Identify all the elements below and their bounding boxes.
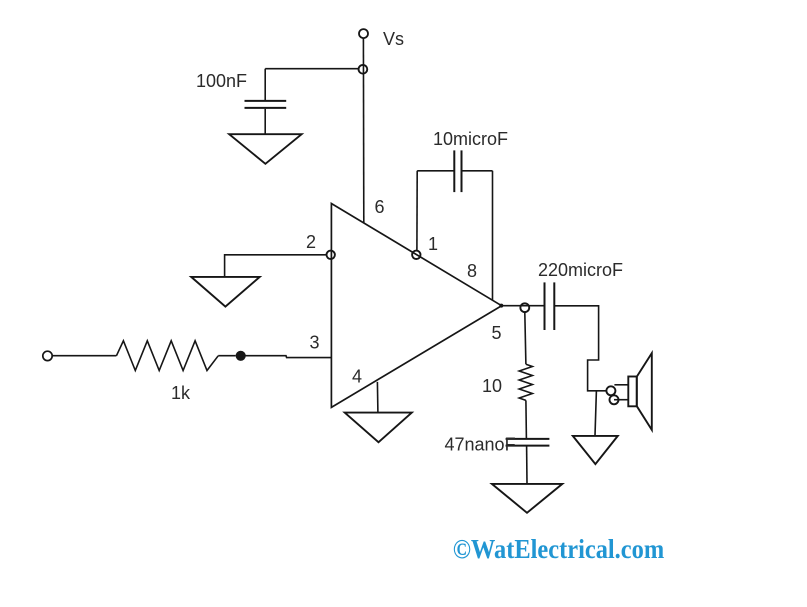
svg-text:Vs: Vs xyxy=(383,29,404,49)
wire pin 4 down xyxy=(376,382,379,413)
wire C4 to ground xyxy=(526,446,528,484)
svg-text:10: 10 xyxy=(482,376,502,396)
wire speaker to ground xyxy=(595,391,596,436)
output node dot xyxy=(499,304,503,308)
capacitor C1 100nF xyxy=(245,101,287,108)
pin 1 circle xyxy=(412,251,420,259)
wire lower terminal to speaker body xyxy=(614,399,628,401)
capacitor C4 47nanoF xyxy=(506,439,550,446)
ground (below C1) xyxy=(229,134,301,164)
wire output to pin 5 circle xyxy=(502,305,544,307)
capacitor C2 10microF xyxy=(454,150,461,192)
svg-text:6: 6 xyxy=(375,197,385,217)
svg-text:1: 1 xyxy=(428,234,438,254)
svg-text:100nF: 100nF xyxy=(196,71,247,91)
speaker LS1 body xyxy=(628,377,636,407)
wire C1 bottom lead xyxy=(264,109,266,134)
svg-text:47nanoF: 47nanoF xyxy=(445,434,516,454)
svg-text:220microF: 220microF xyxy=(538,260,623,280)
wire pin 2 to ground xyxy=(225,255,327,277)
wire node to pin 3 xyxy=(245,356,331,358)
ground (speaker) xyxy=(573,436,618,464)
wire pin 1 up xyxy=(416,171,418,251)
wire Vs rail (terminal to pin 6) xyxy=(362,38,364,226)
terminal Vs xyxy=(359,29,368,38)
wire R1 to node xyxy=(218,355,235,357)
wire junction to capacitor 100nF xyxy=(265,68,359,70)
wire C2 right plate to bend xyxy=(462,170,493,172)
input terminal xyxy=(43,351,52,360)
node junction dot xyxy=(236,351,246,361)
speaker LS1 cone xyxy=(637,353,652,430)
wire C1 top lead xyxy=(264,69,266,100)
junction node (Vs rail) xyxy=(359,65,368,74)
svg-text:2: 2 xyxy=(306,232,316,252)
svg-text:1k: 1k xyxy=(171,383,191,403)
svg-text:10microF: 10microF xyxy=(433,129,508,149)
ground (C4) xyxy=(492,484,562,513)
svg-text:5: 5 xyxy=(492,323,502,343)
resistor R2 10 xyxy=(519,364,532,400)
capacitor C3 220microF xyxy=(545,282,555,330)
wire C3 to speaker (with step) xyxy=(554,306,606,391)
svg-text:©WatElectrical.com: ©WatElectrical.com xyxy=(453,534,665,564)
ground (pin 4) xyxy=(345,413,412,443)
wire R2 to C4 xyxy=(525,400,528,438)
pin 5 circle xyxy=(520,303,529,312)
speaker terminal upper xyxy=(606,386,615,395)
svg-text:4: 4 xyxy=(352,367,362,387)
wire upper terminal to speaker body xyxy=(614,384,628,386)
pin 2 circle xyxy=(327,251,335,259)
op-amp U1 xyxy=(331,204,501,408)
wire input to R1 xyxy=(52,355,117,357)
ground (pin 2) xyxy=(191,277,260,307)
wire to C2 left plate xyxy=(417,170,454,172)
svg-text:3: 3 xyxy=(310,333,320,353)
svg-text:8: 8 xyxy=(467,261,477,281)
wire down to pin 8 xyxy=(492,171,494,301)
speaker terminal lower xyxy=(610,395,619,404)
wire pin 5 down to R2 xyxy=(525,312,526,364)
resistor R1 1k xyxy=(116,341,218,371)
